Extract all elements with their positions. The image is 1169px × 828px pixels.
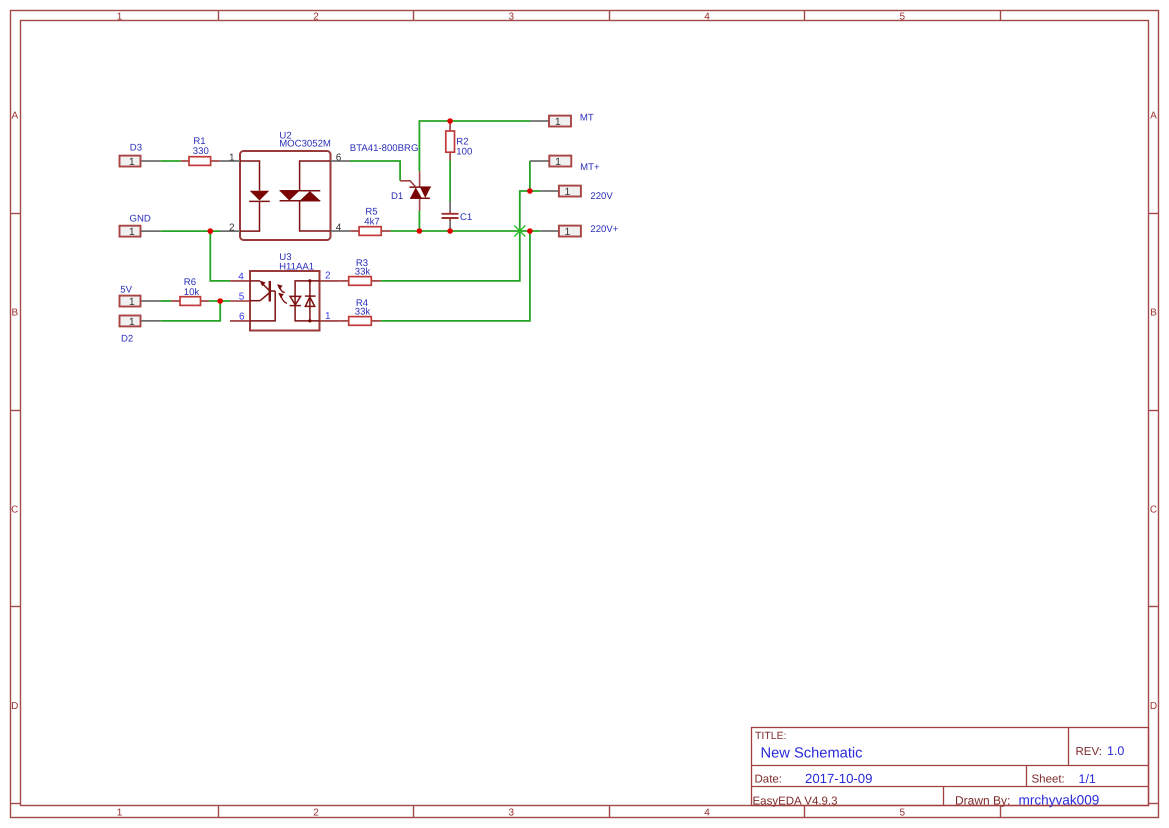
svg-text:1: 1 xyxy=(555,116,561,128)
wire 5V junction down to D2 row xyxy=(160,301,220,321)
svg-text:D: D xyxy=(11,701,18,712)
U2 body xyxy=(240,151,331,240)
junction D1 bottom xyxy=(417,228,423,234)
svg-text:1: 1 xyxy=(229,152,235,163)
svg-text:New Schematic: New Schematic xyxy=(761,746,863,762)
svg-text:4: 4 xyxy=(238,271,244,282)
capacitor C1 xyxy=(442,202,473,232)
svg-text:1: 1 xyxy=(117,808,123,819)
svg-text:3: 3 xyxy=(509,12,515,23)
svg-text:2: 2 xyxy=(313,12,319,23)
port D3 xyxy=(120,142,161,168)
port MT+ xyxy=(530,156,600,174)
svg-text:4: 4 xyxy=(704,808,710,819)
svg-text:H11AA1: H11AA1 xyxy=(279,262,314,273)
light arrows xyxy=(280,288,287,303)
junction 5V/D2 xyxy=(217,298,223,304)
wire GND junction down to U3 pin4 xyxy=(210,231,230,281)
svg-text:1: 1 xyxy=(129,316,135,328)
svg-text:B: B xyxy=(1150,307,1157,318)
svg-text:330: 330 xyxy=(193,146,209,157)
svg-text:2: 2 xyxy=(229,222,235,233)
svg-text:BTA41-800BRG: BTA41-800BRG xyxy=(350,143,419,154)
wire D1 bottom to rail xyxy=(418,211,420,231)
junction dots xyxy=(208,118,533,304)
junction GND xyxy=(208,228,214,234)
svg-text:EasyEDA V4.9.3: EasyEDA V4.9.3 xyxy=(753,795,838,807)
input LED xyxy=(240,161,270,231)
svg-text:A: A xyxy=(11,110,18,121)
svg-text:220V: 220V xyxy=(590,191,613,202)
svg-text:MOC3052M: MOC3052M xyxy=(279,138,331,149)
resistor R2 (vertical) xyxy=(446,121,473,160)
svg-text:Drawn By:: Drawn By: xyxy=(955,793,1010,807)
optocoupler U3 xyxy=(230,252,339,331)
svg-text:2: 2 xyxy=(313,808,319,819)
title block xyxy=(752,728,1149,806)
X cross marker at 220V+ rail xyxy=(514,226,525,237)
svg-text:D2: D2 xyxy=(121,334,133,345)
svg-text:2017-10-09: 2017-10-09 xyxy=(805,771,872,786)
pin 6 xyxy=(230,320,250,322)
svg-text:C: C xyxy=(1150,504,1157,515)
svg-text:D1: D1 xyxy=(391,191,403,202)
svg-text:1: 1 xyxy=(129,296,135,308)
svg-text:B: B xyxy=(11,307,18,318)
svg-text:1: 1 xyxy=(117,12,123,23)
svg-text:1/1: 1/1 xyxy=(1079,772,1096,786)
pin 1 xyxy=(320,320,340,322)
svg-text:6: 6 xyxy=(239,312,245,323)
port GND xyxy=(120,213,161,238)
junction C1 bottom xyxy=(447,228,453,234)
svg-text:REV:: REV: xyxy=(1076,746,1102,758)
wire 5V to R6 xyxy=(160,300,171,302)
svg-text:1.0: 1.0 xyxy=(1107,744,1124,758)
port MT xyxy=(530,112,593,128)
wire MT rail xyxy=(419,121,530,171)
svg-text:5V: 5V xyxy=(120,285,132,296)
svg-text:4k7: 4k7 xyxy=(364,216,379,227)
svg-text:2: 2 xyxy=(325,271,331,282)
svg-text:1: 1 xyxy=(564,226,570,238)
svg-text:C1: C1 xyxy=(460,212,472,223)
wire D3 to R1 xyxy=(160,160,181,162)
resistor R6 xyxy=(171,277,209,306)
svg-text:C: C xyxy=(11,504,18,515)
svg-text:6: 6 xyxy=(336,152,342,163)
svg-text:10k: 10k xyxy=(184,287,200,298)
U3 body xyxy=(250,271,320,331)
svg-text:1: 1 xyxy=(325,311,331,322)
svg-text:5: 5 xyxy=(900,12,906,23)
wire R6 to U3 pin5 xyxy=(209,300,230,302)
triac D1 xyxy=(391,171,431,211)
phototransistor xyxy=(250,281,275,321)
pin 4 xyxy=(331,230,351,232)
port 220V xyxy=(540,186,613,203)
svg-text:100: 100 xyxy=(456,147,472,158)
wire bottom rail xyxy=(391,230,541,232)
port D2 xyxy=(120,316,161,345)
output triac xyxy=(280,161,331,231)
optotriac U2 xyxy=(220,130,350,240)
back-to-back LEDs xyxy=(290,281,320,321)
svg-text:220V+: 220V+ xyxy=(590,224,618,235)
svg-text:A: A xyxy=(1150,110,1157,121)
pin 4 xyxy=(230,280,250,282)
svg-text:1: 1 xyxy=(555,156,561,168)
svg-text:D: D xyxy=(1150,701,1157,712)
resistor R4 xyxy=(339,298,380,325)
pin 5 xyxy=(230,300,250,302)
junction 220V+ xyxy=(527,228,533,234)
svg-text:MT+: MT+ xyxy=(580,162,600,173)
wires xyxy=(160,121,540,321)
svg-text:4: 4 xyxy=(704,12,710,23)
port 5V xyxy=(120,285,161,308)
svg-text:1: 1 xyxy=(129,156,135,168)
port 220V+ xyxy=(540,224,619,238)
wire R2 to C1 xyxy=(449,160,451,201)
svg-text:GND: GND xyxy=(130,213,151,224)
svg-text:MT: MT xyxy=(580,112,594,123)
pin 2 xyxy=(320,280,340,282)
svg-text:33k: 33k xyxy=(355,307,371,318)
junction MT rail xyxy=(447,118,453,124)
resistor R5 xyxy=(350,206,390,235)
svg-text:3: 3 xyxy=(509,808,515,819)
svg-text:1: 1 xyxy=(129,226,135,238)
svg-text:Sheet:: Sheet: xyxy=(1032,774,1065,786)
svg-text:Date:: Date: xyxy=(755,774,783,786)
gate from U2 pin6 xyxy=(400,181,415,187)
svg-text:33k: 33k xyxy=(355,267,371,278)
resistor R3 xyxy=(339,258,380,285)
svg-text:TITLE:: TITLE: xyxy=(755,730,787,742)
svg-text:5: 5 xyxy=(239,291,245,302)
pin 2 xyxy=(220,230,240,232)
resistor R1 xyxy=(181,136,220,165)
svg-text:mrchyvak009: mrchyvak009 xyxy=(1019,793,1100,808)
junction 220V xyxy=(527,188,533,194)
wire MT+ down to 220V xyxy=(529,161,531,191)
svg-text:4: 4 xyxy=(336,222,342,233)
wire 220V+ down to R4 row xyxy=(381,231,530,321)
pin 6 xyxy=(331,160,351,162)
svg-text:D3: D3 xyxy=(130,142,142,153)
wire 220V to X vertical down to R3 row xyxy=(381,191,541,281)
wire U2 pin6 to D1 gate xyxy=(350,161,400,181)
wire GND row xyxy=(160,230,220,232)
svg-text:5: 5 xyxy=(900,808,906,819)
pin 1 xyxy=(220,160,240,162)
svg-text:1: 1 xyxy=(564,186,570,198)
